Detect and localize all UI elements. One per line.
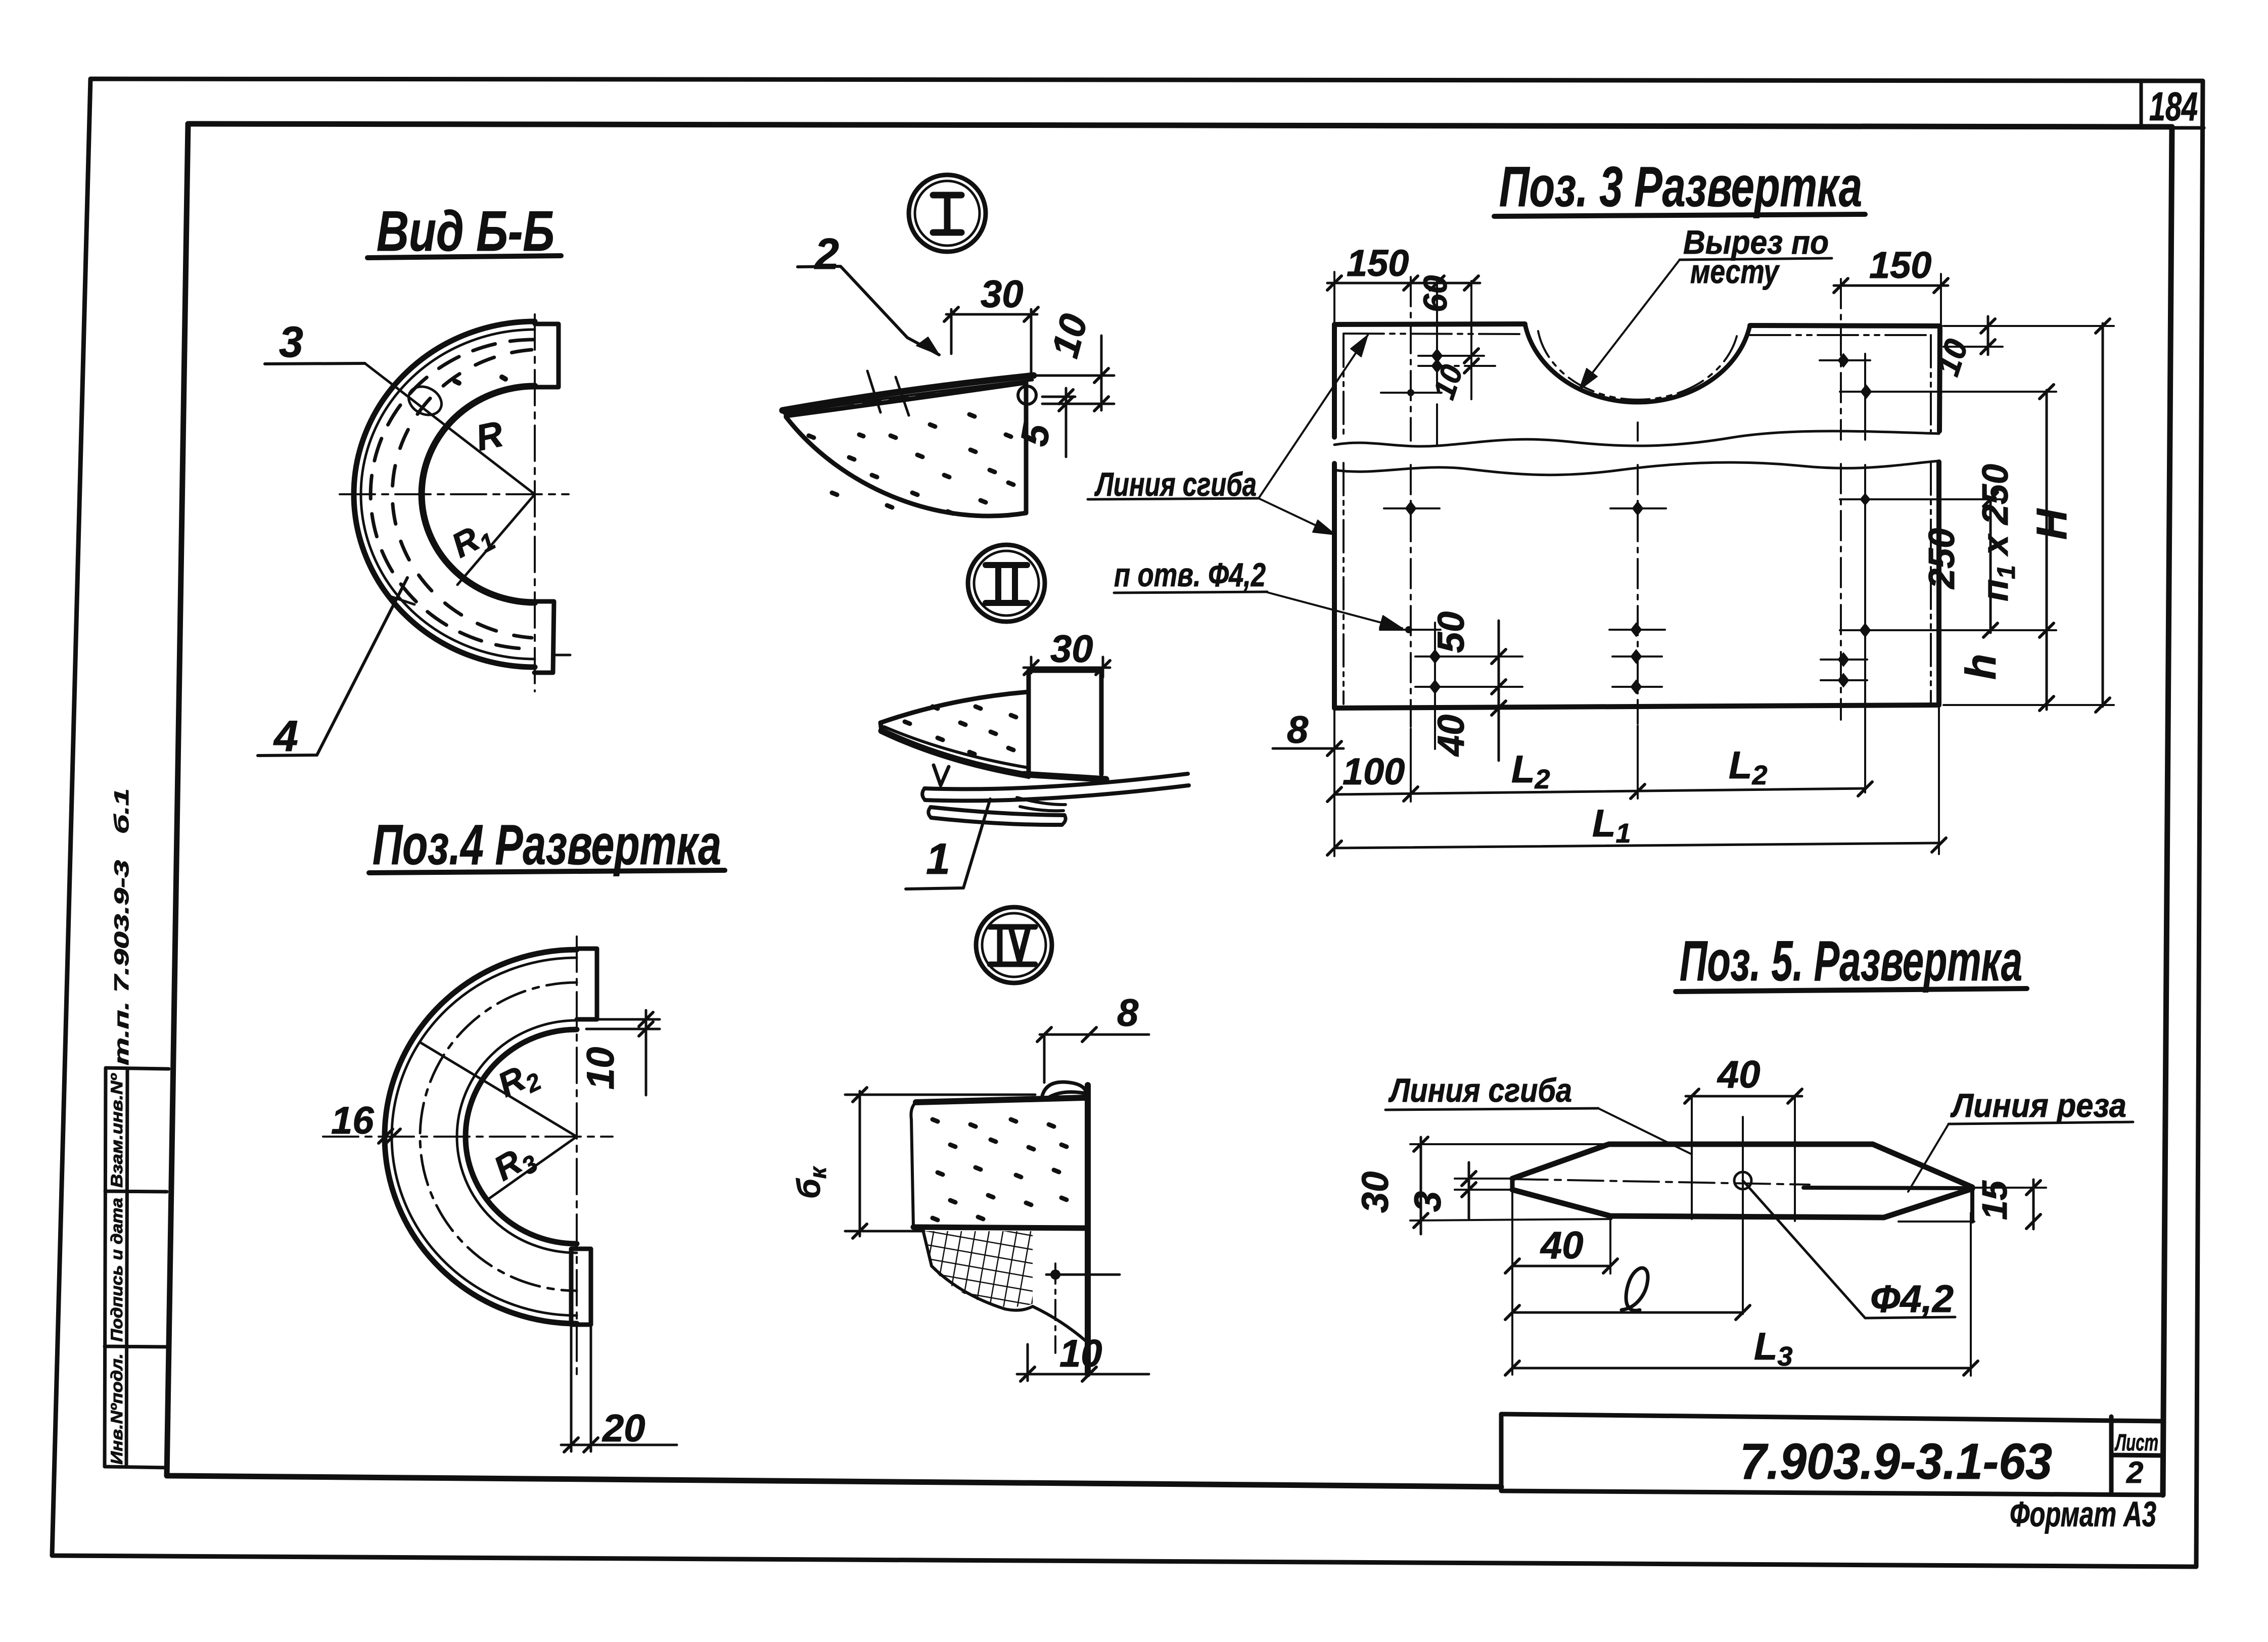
hole G (1632, 501, 1643, 515)
svg-text:2: 2 (814, 230, 839, 278)
stipple dots detail II (905, 707, 1016, 754)
dim 100-L2-L2 line (1334, 788, 1865, 794)
title underline (367, 256, 561, 258)
dim L1 line (1334, 843, 1939, 848)
svg-text:2: 2 (2126, 1456, 2143, 1489)
R1 radius line (457, 494, 535, 585)
hole Ф4,2 (1734, 1172, 1751, 1189)
hole P (1838, 652, 1849, 667)
svg-text:7.903.9-3.1-63: 7.903.9-3.1-63 (1740, 1433, 2052, 1490)
wedge II left tip (881, 723, 882, 731)
label 4 underline and leader (258, 578, 407, 756)
svg-text:10: 10 (1059, 1332, 1102, 1375)
svg-text:250: 250 (1922, 528, 1962, 590)
strap band A left cap (922, 788, 925, 800)
dim 40 top ticks (1685, 1089, 1802, 1103)
Вырез underline (1680, 258, 1832, 260)
felt strip dashed hidden line (809, 394, 935, 408)
hole L (1429, 649, 1441, 664)
dim 40 line (1498, 697, 1500, 761)
left stamp table (105, 1068, 169, 1468)
dim 30 (detail I) extension lines (951, 309, 1031, 374)
boundary curve to shell (1033, 1306, 1086, 1341)
Линия сгиба underline (pos5) (1385, 1108, 1598, 1110)
inner arc thin (457, 1020, 577, 1253)
dim 30 ticks (944, 307, 1038, 321)
tick crossing leader 4 (390, 596, 414, 604)
strip left tip edge (1510, 1179, 1515, 1190)
dim 150 right ticks (1834, 278, 1948, 293)
dim 60 ticks (1430, 276, 1478, 290)
hidden dashed arc 2 (392, 350, 532, 638)
roman numeral II (986, 565, 1027, 603)
felt bottom edge (913, 1227, 1085, 1228)
hole D (1838, 353, 1849, 367)
fold line arc dash-dot (420, 982, 577, 1291)
pos5 ext lines (1512, 1193, 1971, 1376)
strap band B top (931, 807, 1064, 815)
dim 30 (detail II) ticks (1024, 661, 1110, 675)
svg-text:150: 150 (1869, 244, 1931, 286)
n отв underline (1114, 592, 1267, 593)
wedge I outline (concrete shell segment) (786, 383, 1026, 516)
hole J (1631, 623, 1642, 637)
rib rectangle (1029, 671, 1101, 777)
dim 10 right ext (1943, 346, 2003, 348)
dim 3 ext (1455, 1179, 1513, 1190)
dim 16 ticks on centerline (379, 1129, 400, 1143)
fold line vertical 1 (1691, 1096, 1693, 1219)
dim бк line (859, 1091, 861, 1236)
page number box (2141, 81, 2204, 128)
break wavy line 1 (1334, 431, 1939, 446)
svg-text:30: 30 (1354, 1171, 1396, 1213)
svg-text:Лист: Лист (2114, 1429, 2158, 1456)
tick crossing strip 2 (896, 377, 909, 415)
hole A (1431, 349, 1443, 363)
Линия реза leader (1908, 1124, 1949, 1192)
strap band A top (924, 774, 1188, 789)
plate top fold line (1344, 334, 1931, 335)
R2 radius line (421, 1043, 577, 1137)
dim 40 top line (1686, 1095, 1802, 1098)
inner arc (shell inside) (422, 386, 535, 602)
ext lines bottom (pos3) (1334, 708, 1939, 856)
dim 10 right ticks (1981, 319, 1995, 354)
label l (script ell) (1622, 1268, 1648, 1310)
wedge II bottom thick band (882, 731, 1027, 775)
bolt row centerline middle (1637, 423, 1639, 724)
title underline (1494, 214, 1865, 216)
svg-text:30: 30 (981, 273, 1024, 316)
plate top edge (1334, 324, 1940, 326)
stipple dot 1 (455, 381, 459, 383)
dim бк extension lines (845, 1095, 1035, 1231)
label 3 underline (265, 363, 365, 364)
dim 40 tick (1492, 701, 1506, 715)
fold line vertical 2 (1794, 1096, 1796, 1221)
label 1 underline and leader (906, 799, 990, 889)
svg-text:Линия сгиба: Линия сгиба (1388, 1071, 1572, 1109)
dim 30 line (pos5) (1420, 1137, 1422, 1234)
anchor centerline (1054, 1263, 1056, 1353)
strip right end edge (1970, 1187, 1974, 1222)
dim 3 ticks (1462, 1171, 1476, 1197)
felt left edge (911, 1102, 916, 1227)
hole K (1860, 623, 1871, 637)
outer arc second line (361, 330, 535, 659)
stipple dot 2 (502, 377, 505, 379)
svg-text:60: 60 (1416, 275, 1454, 312)
svg-text:4: 4 (273, 712, 298, 761)
svg-text:Н: Н (2028, 508, 2075, 540)
mesh left edge (923, 1230, 932, 1266)
Линия сгиба underline (1088, 498, 1259, 499)
detail circle IV (976, 907, 1052, 983)
svg-text:Формат А3: Формат А3 (2010, 1494, 2156, 1534)
plate bottom edge (1334, 705, 1939, 708)
svg-text:8: 8 (1117, 992, 1139, 1035)
inner border frame (167, 124, 2172, 1495)
rolled hook under rib (1017, 797, 1066, 811)
svg-text:h: h (1957, 654, 2005, 680)
dim 20 line (561, 1444, 677, 1446)
bottom flange tab (534, 601, 554, 673)
hole F (1405, 501, 1416, 515)
dim 150 right line (1834, 285, 1948, 287)
stipple dots detail I (809, 414, 1013, 513)
outer arc second line (392, 958, 577, 1316)
dim 250 line (1989, 497, 1992, 633)
dim 30 ext (pos5) (1410, 1144, 1611, 1221)
dim n1x250 ticks (2040, 385, 2054, 637)
svg-text:20: 20 (601, 1407, 645, 1450)
strip end circlet (1018, 386, 1036, 404)
strap band B bottom (931, 818, 1062, 825)
svg-text:Взам.инв.Nº: Взам.инв.Nº (108, 1073, 126, 1188)
offset column top left 2 (1470, 281, 1472, 399)
title underline (369, 870, 725, 873)
Ф4,2 underline and leader (1743, 1181, 1955, 1318)
dim 5 arrow line (1042, 396, 1075, 398)
Вырез leader (1579, 260, 1680, 390)
dim 10 (detail I) extension lines (1035, 376, 1114, 404)
dim n1x250 line (2046, 390, 2048, 632)
dim 40 bottom ticks (1505, 1259, 1617, 1273)
dim 8 tick (1327, 741, 1341, 756)
felt strip band top line (782, 376, 1034, 410)
detail circle I (909, 175, 986, 252)
dim 15 ticks (2026, 1181, 2041, 1229)
Линия сгиба leader down (1259, 498, 1335, 535)
strap band B caps (929, 807, 1066, 825)
dim L3 line (1512, 1367, 1971, 1370)
dim 150 left ticks (1327, 276, 1418, 290)
felt top edge thick (916, 1098, 1085, 1102)
svg-text:40: 40 (1717, 1053, 1761, 1096)
dim 10 line (645, 1010, 647, 1095)
dim 10 extension lines (586, 1019, 660, 1029)
notch arc (1525, 324, 1750, 402)
hole E (1861, 385, 1872, 399)
dim 15 ext (1974, 1187, 2046, 1189)
plate right fold line (1930, 335, 1932, 702)
hole N (1631, 649, 1642, 664)
dim 20 ticks (564, 1438, 598, 1452)
mesh hatch region (923, 1231, 1033, 1307)
dim 15 line (2032, 1180, 2035, 1229)
dim 150 right ext (1940, 274, 1942, 323)
svg-text:15: 15 (1975, 1180, 2014, 1220)
svg-text:40: 40 (1540, 1224, 1584, 1267)
outer arc (shell outside) (354, 321, 535, 667)
dim 10 (detail IV) line (1017, 1373, 1149, 1376)
svg-text:16: 16 (331, 1099, 374, 1142)
strip right bottom thin edge (1899, 1221, 1974, 1223)
top tab (577, 949, 597, 1019)
leader 2 arrowhead (916, 337, 939, 355)
inner arc thick (466, 1029, 577, 1244)
horizontal centerline (323, 1136, 613, 1138)
svg-text:184: 184 (2149, 84, 2198, 129)
svg-text:100: 100 (1343, 750, 1405, 792)
center axis (1512, 1179, 1810, 1185)
dim 30 ext stubs (1031, 657, 1103, 677)
hole I with leader arrowhead (1405, 626, 1412, 633)
Линия сгиба leader (pos5) (1598, 1108, 1691, 1154)
mesh boundary curve (932, 1266, 1033, 1310)
Линия сгиба leader up (1259, 335, 1368, 498)
svg-text:3: 3 (279, 318, 303, 366)
dim l ticks (1505, 1305, 1750, 1320)
dim 40 bottom line (1512, 1265, 1610, 1268)
dim h line (2046, 632, 2048, 710)
bolt row centerline right (1840, 279, 1842, 720)
V link (934, 765, 949, 785)
dim 8 leader line (1273, 747, 1344, 750)
offset column top left (1436, 281, 1438, 445)
offset column right (1864, 354, 1866, 792)
horizontal centerline (340, 493, 569, 495)
offset column bottom left (1434, 623, 1436, 749)
hidden dashed arc 1 (371, 340, 533, 649)
anchor dot line (1046, 1274, 1120, 1276)
roman numeral I (933, 195, 961, 232)
dim 50 line (1498, 621, 1500, 697)
bottom tab (571, 1249, 591, 1325)
wedge II band second line (884, 727, 1028, 768)
n отв leader (1267, 592, 1402, 628)
dim 10 right line (1987, 316, 1989, 355)
dim 150 left line (1327, 282, 1418, 285)
dim 30 line (946, 313, 1037, 316)
dim 10 line (1100, 336, 1103, 410)
Линия реза underline (1949, 1122, 2133, 1124)
svg-text:50: 50 (1430, 612, 1472, 653)
svg-text:Вид Б-Б: Вид Б-Б (377, 200, 554, 263)
svg-text:п1 x 250: п1 x 250 (1975, 464, 2020, 601)
hole vertical centerline (1742, 1117, 1744, 1314)
strap band A bottom (925, 785, 1189, 801)
svg-text:Линия реза: Линия реза (1950, 1087, 2126, 1124)
stipple dots detail IV (933, 1119, 1067, 1220)
svg-text:1: 1 (926, 835, 950, 883)
dim 150 left ext (1333, 272, 1335, 321)
hole C (1407, 389, 1414, 396)
hole O (1631, 680, 1642, 694)
dim 8 line (1040, 1034, 1149, 1036)
dim 10 ticks (1094, 368, 1108, 411)
rolled felt edge curl (1042, 1082, 1087, 1100)
hole H (1860, 493, 1870, 505)
shell edge vertical (1085, 1085, 1091, 1374)
dim H ticks (2096, 319, 2110, 712)
cut line along axis (1803, 1188, 1972, 1188)
dim 5 ticks (1059, 390, 1073, 411)
plate left fold line (1343, 335, 1345, 704)
detail circle II (968, 545, 1045, 622)
dim h tick (2040, 696, 2054, 711)
bolt row centerline left (1410, 277, 1412, 727)
strip outline top (1512, 1144, 1972, 1187)
dim 50 ticks (1492, 649, 1506, 694)
label 2 underline and leader (798, 266, 939, 355)
outer arc (385, 950, 577, 1324)
svg-text:т.п. 7.903.9-3 б.1: т.п. 7.903.9-3 б.1 (111, 788, 133, 1065)
svg-text:8: 8 (1287, 709, 1309, 752)
dim 10 top-left ticks (1464, 349, 1478, 373)
svg-text:150: 150 (1347, 242, 1409, 284)
dim бк ticks (853, 1088, 867, 1238)
roman numeral IV (990, 927, 1035, 964)
svg-text:10: 10 (579, 1047, 622, 1090)
dim H ext lines (1943, 326, 2114, 705)
title block frame (1501, 1414, 2163, 1495)
hole M (1429, 680, 1441, 694)
plate left edge (1332, 324, 1337, 708)
vertical centerline (576, 936, 578, 1381)
vertical centerline (534, 314, 536, 691)
svg-text:3: 3 (1407, 1191, 1449, 1212)
anchor dot (1050, 1270, 1060, 1280)
svg-text:Поз. 5. Развертка: Поз. 5. Развертка (1680, 929, 2022, 993)
dim 60 line (1418, 282, 1480, 285)
svg-text:п отв. Ф4,2: п отв. Ф4,2 (1114, 556, 1266, 593)
tick crossing strip 1 (867, 371, 881, 412)
dim 250 ticks (1983, 492, 1998, 637)
dim L3 ticks (1505, 1361, 1978, 1375)
small tick near bottom flange (554, 654, 570, 656)
notch inner dashed arc (1538, 331, 1738, 400)
felt strip band middle line (784, 380, 1033, 413)
dim l line (1512, 1311, 1743, 1314)
rib rectangle bottom thick (1024, 774, 1106, 779)
dim 30 (detail II) line (1024, 667, 1110, 669)
dim H line (2102, 323, 2104, 707)
dim 10 ticks (639, 1012, 653, 1036)
dim 20 extension lines (571, 1327, 591, 1451)
top flange tab (535, 324, 559, 387)
dim 30 ticks (pos5) (1414, 1137, 1428, 1228)
svg-text:Поз.4 Развертка: Поз.4 Развертка (373, 813, 721, 876)
svg-text:Подпись и дата: Подпись и дата (108, 1198, 126, 1342)
hole Q (1838, 673, 1849, 687)
title underline (1676, 989, 2027, 992)
R radius line with leader from label 3 (365, 363, 535, 494)
wedge II top edge (881, 692, 1029, 723)
svg-text:30: 30 (1050, 628, 1093, 671)
plate right edge (1939, 326, 1940, 705)
strip outline bottom (1512, 1189, 1972, 1217)
break wavy line 2 (1334, 461, 1939, 475)
dim 5 line (1065, 388, 1068, 457)
svg-text:Ф4,2: Ф4,2 (1870, 1278, 1954, 1321)
dim 10 (detail IV) ext (1027, 1344, 1029, 1381)
dim L1 ticks (1327, 838, 1946, 855)
dim 8 extension line (1043, 1035, 1046, 1083)
svg-text:Инв.Nºподл.: Инв.Nºподл. (108, 1353, 126, 1465)
dim 100-L2 ticks (1327, 782, 1872, 802)
dim 3 line (1468, 1162, 1470, 1219)
svg-text:40: 40 (1430, 715, 1472, 757)
dim 8 ticks (1037, 1027, 1096, 1042)
svg-text:Поз. 3 Развертка: Поз. 3 Развертка (1499, 155, 1862, 218)
loop on leader 3 (404, 381, 446, 420)
R3 radius line (489, 1137, 577, 1199)
dim 10 (detail IV) ticks (1021, 1367, 1096, 1381)
hole B (1431, 359, 1443, 373)
